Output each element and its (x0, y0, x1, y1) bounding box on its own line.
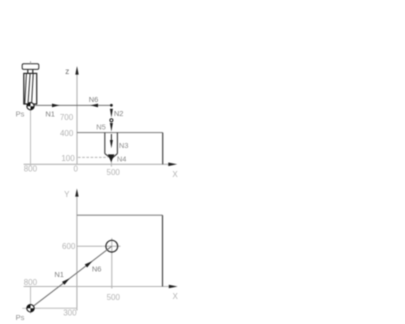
hole right edge (116, 133, 118, 154)
svg-text:Y: Y (64, 190, 70, 199)
intermediate point (open circle) (110, 119, 113, 122)
Y=600 level line (77, 245, 103, 247)
svg-text:500: 500 (107, 293, 121, 302)
point N4 arrowhead at hole bottom (108, 154, 115, 162)
move N3 arrow (drill down) (110, 134, 112, 141)
svg-text:X: X (173, 292, 179, 301)
workpiece top surface (top view) (77, 132, 163, 134)
move N5 arrow (down to surface) (110, 123, 113, 132)
hole crosshair horizontal (103, 245, 120, 247)
X=-800 guide line down to Ps (30, 287, 32, 305)
svg-text:500: 500 (107, 168, 121, 177)
start point Ps marker (bottom view) (30, 301, 32, 314)
svg-text:X: X (172, 170, 178, 179)
drill tool neck (27, 69, 29, 73)
drill tool cap centerline tick (30, 61, 32, 64)
svg-text:z: z (65, 67, 69, 76)
svg-text:800: 800 (24, 278, 38, 287)
rapid move diagonal Ps to hole (31, 246, 112, 308)
svg-text:300: 300 (63, 309, 77, 318)
workpiece top edge (bottom view) (77, 214, 163, 216)
svg-text:N5: N5 (96, 123, 106, 132)
svg-text:N4: N4 (117, 154, 127, 163)
svg-text:N1: N1 (54, 270, 64, 279)
travel line N1/N6 at Z=700 (31, 104, 112, 106)
move N6 arrowhead (diagonal) (85, 261, 93, 267)
Z axis line (76, 73, 78, 164)
X axis line (top view) (24, 163, 170, 165)
svg-text:N3: N3 (119, 141, 129, 150)
svg-text:Ps: Ps (16, 110, 25, 119)
X axis arrowhead (bottom view) (169, 285, 178, 289)
svg-text:700: 700 (60, 113, 74, 122)
workpiece right edge (bottom view) (162, 215, 164, 286)
hole crosshair vertical (111, 238, 113, 254)
move N1 arrowhead (diagonal) (62, 278, 70, 284)
svg-text:0: 0 (73, 165, 78, 174)
hole centerline below cone tip (110, 159, 112, 167)
svg-text:N2: N2 (114, 109, 124, 118)
Ps vertical guide line (top view) (30, 110, 32, 166)
Y=300 level line from Ps (31, 307, 78, 309)
Y axis line (76, 196, 78, 311)
svg-text:Ps: Ps (16, 313, 25, 322)
hole circle (106, 240, 118, 252)
workpiece right edge (top view) (162, 133, 164, 165)
hole left edge (104, 133, 106, 154)
svg-text:N6: N6 (92, 265, 102, 274)
svg-text:100: 100 (61, 154, 75, 163)
svg-text:400: 400 (60, 129, 74, 138)
Z=100 level dashed line (78, 156, 108, 158)
start point Ps marker (top view) (27, 103, 34, 110)
svg-text:600: 600 (62, 242, 76, 251)
move N6 arrowhead (leftward) (90, 104, 98, 108)
svg-text:800: 800 (24, 165, 38, 174)
hole centerline down to axis (111, 255, 113, 289)
drill tool flutes (25, 74, 27, 104)
Y axis arrowhead (75, 189, 78, 197)
svg-text:N6: N6 (89, 95, 99, 104)
drill tool holder cap (22, 64, 39, 70)
hole bottom cone (105, 154, 118, 159)
junction dot at X=500,Z=700 (110, 104, 113, 107)
X axis line (bottom view) (24, 286, 170, 288)
X axis arrowhead (top view) (168, 163, 177, 167)
move N2 arrow (down) (110, 109, 113, 118)
Z axis arrowhead (75, 66, 78, 75)
svg-text:N1: N1 (45, 110, 55, 119)
drill tool body (24, 73, 37, 104)
move N1 arrowhead (rightward) (52, 104, 60, 108)
